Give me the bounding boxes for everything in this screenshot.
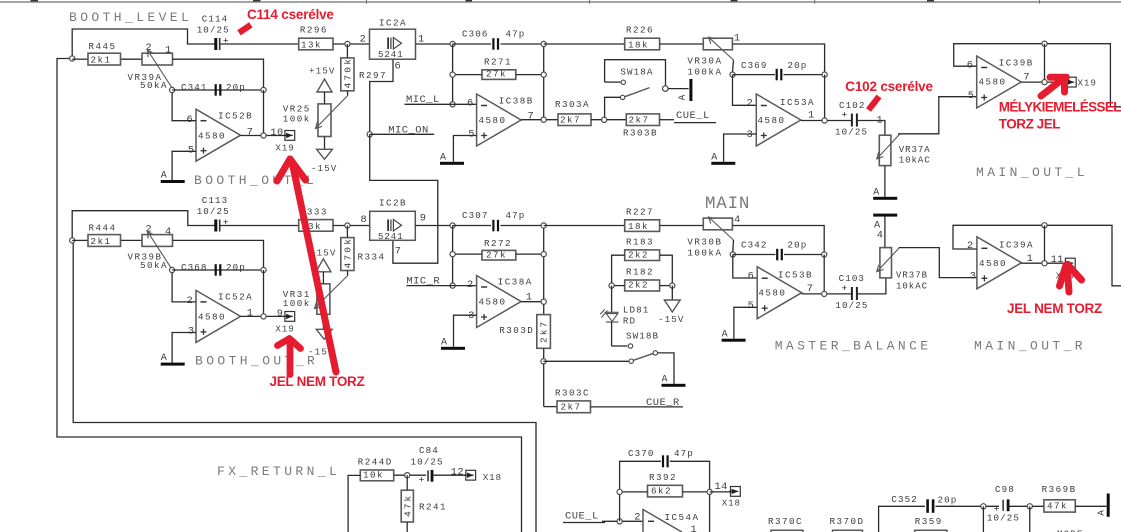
svg-text:C113: C113 xyxy=(202,195,228,206)
potentiometer VR39A xyxy=(142,53,173,65)
svg-text:CUE_L: CUE_L xyxy=(676,110,710,122)
op-amp IC54A partial xyxy=(643,510,682,532)
svg-text:MAIN_OUT_L: MAIN_OUT_L xyxy=(976,165,1088,180)
wire R271 row xyxy=(453,74,482,76)
svg-text:4: 4 xyxy=(165,226,171,238)
svg-text:4580: 4580 xyxy=(758,288,786,299)
node IC2A out junction xyxy=(450,41,455,46)
wire 470k R top xyxy=(346,226,348,238)
red dash C114 xyxy=(239,25,251,33)
node C341 right junction xyxy=(261,87,266,92)
connector X19 main R xyxy=(1065,258,1075,268)
wire C370 loop xyxy=(620,461,661,521)
wire FX return input xyxy=(348,475,360,532)
ground IC53B xyxy=(722,339,746,342)
wire IC52A output xyxy=(241,315,285,317)
svg-text:+: + xyxy=(842,283,848,294)
node MIC_L junction xyxy=(450,102,455,107)
svg-text:-15V: -15V xyxy=(658,314,684,325)
svg-text:6k2: 6k2 xyxy=(651,485,672,496)
svg-text:100k: 100k xyxy=(283,298,311,309)
svg-text:7: 7 xyxy=(528,111,534,123)
wire IC52B pin6 input xyxy=(172,93,196,121)
svg-text:8: 8 xyxy=(361,214,367,226)
ground IC38A xyxy=(441,347,465,350)
node C368 right junction xyxy=(261,267,266,272)
svg-text:R303C: R303C xyxy=(555,387,590,398)
svg-text:R272: R272 xyxy=(484,238,512,249)
wire R303A to R303B xyxy=(591,119,626,121)
red dash C102 xyxy=(869,97,880,111)
svg-text:MIC_ON: MIC_ON xyxy=(388,125,429,137)
wire VR37B wiper to IC39A pin3 xyxy=(899,248,977,278)
svg-text:C369: C369 xyxy=(741,60,767,71)
svg-text:2k7: 2k7 xyxy=(560,115,581,126)
wire IC2A output xyxy=(416,43,453,45)
wiper VR25 xyxy=(316,96,348,129)
svg-text:7: 7 xyxy=(395,246,401,258)
svg-text:20p: 20p xyxy=(938,495,958,506)
node C98 junction xyxy=(1027,504,1032,509)
svg-text:C98: C98 xyxy=(995,484,1015,495)
svg-text:C114: C114 xyxy=(202,13,228,24)
svg-text:R359: R359 xyxy=(915,516,943,527)
svg-text:IC52B: IC52B xyxy=(218,110,253,121)
svg-text:5241: 5241 xyxy=(378,50,404,60)
svg-text:10kAC: 10kAC xyxy=(896,282,928,292)
node R182 left junction xyxy=(609,283,614,288)
svg-text:100k: 100k xyxy=(283,114,311,125)
svg-text:2: 2 xyxy=(360,34,366,46)
wire IC53A pin2 xyxy=(733,75,757,106)
wire IC39A output xyxy=(1021,262,1065,264)
bus stub A mute L xyxy=(689,79,692,101)
red long arrow to X19 booth L xyxy=(277,159,336,372)
wire mid vertical C306-R271-out xyxy=(543,44,545,120)
svg-text:13k: 13k xyxy=(301,40,322,51)
svg-text:10/25: 10/25 xyxy=(197,206,230,217)
potentiometer VR37B 10kAC xyxy=(880,248,892,278)
svg-text:C84: C84 xyxy=(419,445,439,456)
wire left vertical C306-R271-MIC_L xyxy=(452,44,454,104)
svg-text:2k7: 2k7 xyxy=(629,115,650,126)
ground IC38B xyxy=(440,162,464,165)
svg-text:R303A: R303A xyxy=(555,99,590,110)
wire C84 to X18 xyxy=(433,474,465,476)
svg-text:10/25: 10/25 xyxy=(197,24,230,35)
op-amp IC52A xyxy=(196,290,241,342)
svg-text:2: 2 xyxy=(967,240,973,252)
net CUE_L top xyxy=(660,119,675,121)
svg-text:50kA: 50kA xyxy=(140,80,168,91)
wire C103 to VR37B xyxy=(858,278,886,294)
svg-text:10k: 10k xyxy=(363,470,384,481)
svg-text:X19: X19 xyxy=(1078,77,1097,88)
svg-text:R297: R297 xyxy=(359,70,387,81)
svg-text:10/25: 10/25 xyxy=(987,513,1020,524)
svg-text:R370D: R370D xyxy=(830,516,865,527)
svg-text:+15V: +15V xyxy=(309,66,335,77)
wire IC38B output xyxy=(521,119,558,121)
svg-text:R241: R241 xyxy=(419,501,447,512)
svg-text:A: A xyxy=(161,353,167,364)
wire C113 to R333 xyxy=(221,225,299,227)
sheet border top line xyxy=(0,1,1121,3)
svg-text:18k: 18k xyxy=(628,40,649,51)
wire IC53A pin3 ground xyxy=(724,134,757,162)
resistor R334 470k xyxy=(341,238,354,271)
node IC38A out junction xyxy=(541,299,546,304)
svg-text:27k: 27k xyxy=(486,249,507,260)
svg-text:14: 14 xyxy=(715,481,728,493)
svg-text:10/25: 10/25 xyxy=(411,457,444,468)
svg-text:5: 5 xyxy=(468,128,474,140)
wire R244D to C84 xyxy=(394,474,426,476)
svg-text:3: 3 xyxy=(970,271,976,283)
wire SW18A to cue node xyxy=(605,97,621,117)
node VR39B wiper junction xyxy=(170,267,175,272)
svg-text:C342: C342 xyxy=(741,239,767,250)
svg-text:R244D: R244D xyxy=(358,457,393,468)
switch SW18B lever xyxy=(631,353,655,361)
svg-text:A: A xyxy=(1096,510,1106,516)
svg-text:100kA: 100kA xyxy=(687,248,722,259)
wire IC38B pin5 ground xyxy=(453,136,476,162)
svg-text:R334: R334 xyxy=(358,251,386,262)
ground IC53A xyxy=(711,162,735,165)
svg-text:5241: 5241 xyxy=(378,232,404,242)
bus stub A bottom right xyxy=(1107,494,1110,517)
svg-text:4580: 4580 xyxy=(758,115,786,126)
wire R241 wires xyxy=(406,475,408,490)
svg-text:R370C: R370C xyxy=(768,516,803,527)
svg-text:R445: R445 xyxy=(89,41,117,52)
svg-text:R303D: R303D xyxy=(499,325,534,336)
wire C102 to VR37A xyxy=(858,121,885,136)
node VR39A wiper junction xyxy=(170,87,175,92)
ground SW18B xyxy=(662,384,686,387)
svg-text:2k1: 2k1 xyxy=(91,55,112,66)
wire C307 row xyxy=(453,225,491,227)
ground IC52B xyxy=(161,180,185,183)
wire VR37A to ground xyxy=(884,166,886,197)
svg-text:X18: X18 xyxy=(722,498,741,509)
wire R296 to IC2A pin2 xyxy=(333,43,370,45)
svg-text:SW18B: SW18B xyxy=(626,330,659,341)
resistor R303D 2k7 vertical xyxy=(537,315,551,349)
node R445 left junction xyxy=(70,56,75,61)
node R392 right junction xyxy=(707,489,712,494)
svg-text:2k2: 2k2 xyxy=(628,249,649,260)
border zone glyph 5 xyxy=(927,0,934,1)
svg-text:1: 1 xyxy=(247,308,253,320)
svg-text:1: 1 xyxy=(165,45,171,57)
node IC2B out junction xyxy=(450,223,455,228)
svg-text:MAIN_OUT_R: MAIN_OUT_R xyxy=(974,339,1086,354)
svg-text:C352: C352 xyxy=(891,494,917,505)
wire IC52A pin2 input xyxy=(172,273,196,302)
svg-text:A: A xyxy=(440,152,446,163)
wire C114 top link xyxy=(72,29,215,59)
svg-text:10/25: 10/25 xyxy=(835,126,868,137)
wire IC52A pin3 ground xyxy=(172,333,196,363)
wire 470k bottom stub xyxy=(346,91,348,96)
ground VR37A xyxy=(873,197,897,200)
wire mid vertical C307-R272-out xyxy=(543,226,545,315)
border zone glyph 4 xyxy=(731,0,738,1)
wire IC38B out to R226 xyxy=(544,43,625,45)
svg-text:C370: C370 xyxy=(628,448,654,459)
wire R333 to IC2B pin8 xyxy=(333,225,370,227)
wire VR37A wiper to IC39B pin5 xyxy=(899,97,977,135)
svg-text:CUE_L: CUE_L xyxy=(565,511,599,523)
resistor R297 470k xyxy=(341,58,354,91)
wire output to feedback R xyxy=(1044,225,1046,263)
svg-text:IC53A: IC53A xyxy=(780,97,815,108)
wire IC2B output xyxy=(415,225,452,227)
svg-text:9: 9 xyxy=(420,213,426,225)
node IC53A out junction xyxy=(822,118,827,123)
svg-text:R183: R183 xyxy=(626,237,654,248)
svg-text:+: + xyxy=(223,217,229,228)
wire IC52B pin5 ground xyxy=(172,151,196,180)
connector X19 booth R xyxy=(285,312,295,322)
svg-text:X18: X18 xyxy=(483,472,502,483)
svg-text:IC39A: IC39A xyxy=(999,239,1034,250)
node mid R272 junction xyxy=(541,252,546,257)
wire MIC_ON routing to IC2B pin7 xyxy=(370,134,438,263)
connector X18 fx xyxy=(466,470,476,480)
wire R272 row xyxy=(453,253,482,255)
svg-text:IC38B: IC38B xyxy=(499,95,534,106)
red arrow to X19 main L xyxy=(1041,77,1067,96)
wire VR30A pin1 feedback xyxy=(732,44,824,75)
svg-text:12: 12 xyxy=(451,467,464,479)
border zone tick 1 xyxy=(366,0,368,4)
node C342 right junction xyxy=(822,252,827,257)
svg-text:R303B: R303B xyxy=(623,128,658,139)
svg-text:1: 1 xyxy=(734,32,740,44)
node MIC_R junction xyxy=(450,283,455,288)
svg-text:IC38A: IC38A xyxy=(498,277,533,288)
svg-text:4580: 4580 xyxy=(979,77,1007,88)
wire R392 to X18 xyxy=(710,491,731,493)
svg-text:VR30B: VR30B xyxy=(687,237,722,248)
wire feedback C369 to output xyxy=(824,75,826,121)
svg-text:VR37B: VR37B xyxy=(896,271,928,281)
wire IC53B pin6 xyxy=(733,255,757,279)
node IC39B feedback junction xyxy=(1042,41,1047,46)
red arrow to X19 main R xyxy=(1060,265,1082,292)
node IC39B out junction xyxy=(1042,80,1047,85)
svg-text:3: 3 xyxy=(188,326,194,338)
node R303A-R303B junction xyxy=(602,117,607,122)
node IC39A out junction xyxy=(1042,261,1047,266)
svg-text:+: + xyxy=(223,35,229,46)
wire C341 row xyxy=(172,89,263,91)
svg-text:C368: C368 xyxy=(181,262,207,273)
wire booth level L input loop xyxy=(57,59,522,532)
svg-text:R296: R296 xyxy=(300,25,328,36)
svg-text:A: A xyxy=(662,374,668,385)
wire feedback C368 to output xyxy=(263,270,265,316)
svg-text:11: 11 xyxy=(1051,254,1064,266)
wire R226 to VR30A xyxy=(660,43,704,45)
wiper VR30B xyxy=(709,217,734,240)
wire booth level R input loop xyxy=(72,239,73,241)
wire IC53B pin5 ground xyxy=(734,307,757,338)
wire SW18A pole to bus A xyxy=(668,88,689,90)
svg-text:C341: C341 xyxy=(181,82,207,93)
svg-text:A: A xyxy=(711,152,717,163)
wire feedback C341 to output xyxy=(263,90,265,136)
svg-text:2: 2 xyxy=(634,512,640,524)
svg-text:C306: C306 xyxy=(462,28,488,39)
wire R183 loop xyxy=(612,255,625,285)
svg-text:A: A xyxy=(441,337,447,348)
connector X19 main L xyxy=(1066,77,1076,87)
wire C342 row xyxy=(733,254,776,256)
svg-text:R182: R182 xyxy=(626,267,654,278)
svg-text:10kAC: 10kAC xyxy=(899,155,931,165)
svg-text:MODE: MODE xyxy=(1057,528,1083,532)
node IC38B out junction xyxy=(541,117,546,122)
svg-text:2k7: 2k7 xyxy=(539,320,550,343)
svg-text:4580: 4580 xyxy=(479,115,507,126)
connector X19 booth L xyxy=(285,131,295,141)
potentiometer VR39B xyxy=(142,235,173,247)
svg-text:VR30A: VR30A xyxy=(687,55,722,66)
svg-text:A: A xyxy=(722,329,728,340)
svg-text:IC54A: IC54A xyxy=(665,512,700,523)
node R444 left junction xyxy=(70,238,75,243)
power -15V LED branch xyxy=(671,286,673,300)
red arrow to X19 booth R xyxy=(278,339,301,375)
wire 470k R bottom stub xyxy=(346,271,348,276)
svg-text:IC52A: IC52A xyxy=(218,291,253,302)
svg-text:3: 3 xyxy=(747,129,753,141)
svg-text:A: A xyxy=(678,94,688,100)
op-amp IC52B xyxy=(196,109,241,161)
svg-text:R227: R227 xyxy=(626,206,654,217)
wire C113 top link xyxy=(72,211,215,241)
border zone tick 3 xyxy=(814,0,816,4)
wire IC52B output xyxy=(241,135,285,137)
svg-text:+: + xyxy=(419,474,425,485)
svg-text:100kA: 100kA xyxy=(687,66,722,77)
wire to SW18B xyxy=(544,360,629,362)
svg-text:2k2: 2k2 xyxy=(628,280,649,291)
svg-text:SW18A: SW18A xyxy=(620,66,653,77)
node R303D bottom junction xyxy=(541,359,546,364)
wire C368 row xyxy=(172,269,263,271)
svg-text:MASTER_BALANCE: MASTER_BALANCE xyxy=(775,339,932,354)
svg-text:LD81: LD81 xyxy=(623,304,649,315)
wire C98 to R369B xyxy=(1010,505,1044,507)
wire C114 to R296 xyxy=(221,43,299,45)
node C352 junction xyxy=(981,504,986,509)
svg-text:R392: R392 xyxy=(649,472,677,483)
wiper VR31 xyxy=(315,276,348,309)
node C369 right junction xyxy=(822,72,827,77)
ground IC52A xyxy=(161,363,185,366)
svg-text:IC2A: IC2A xyxy=(379,17,407,28)
svg-text:50kA: 50kA xyxy=(140,260,168,271)
svg-text:20p: 20p xyxy=(226,82,246,93)
node R182 right junction xyxy=(670,283,675,288)
border zone tick 2 xyxy=(589,0,591,4)
svg-text:6: 6 xyxy=(467,97,473,109)
potentiometer VR30B 100kA xyxy=(703,218,732,230)
svg-text:4: 4 xyxy=(877,229,883,241)
svg-text:IC53B: IC53B xyxy=(778,270,813,281)
svg-text:18k: 18k xyxy=(628,221,649,232)
svg-text:VR37A: VR37A xyxy=(899,145,931,155)
svg-text:47k: 47k xyxy=(1047,500,1068,511)
svg-text:R444: R444 xyxy=(89,222,117,233)
node IC52A output junction xyxy=(261,314,266,319)
node R241 top junction xyxy=(405,473,410,478)
wire C369 row xyxy=(733,74,776,76)
svg-text:4580: 4580 xyxy=(979,258,1007,269)
wire C306 row xyxy=(453,43,491,45)
svg-text:4580: 4580 xyxy=(198,311,226,322)
svg-text:R369B: R369B xyxy=(1042,484,1077,495)
wire IC38A out to R227 xyxy=(544,225,625,227)
node IC53B out junction xyxy=(822,291,827,296)
op-amp IC53B xyxy=(757,267,802,319)
svg-text:7: 7 xyxy=(247,127,253,139)
svg-text:1: 1 xyxy=(808,109,814,121)
border zone glyph 2 xyxy=(253,0,261,1)
LED LD81 RD xyxy=(611,286,613,312)
svg-text:MAIN: MAIN xyxy=(705,194,750,214)
wiper VR30A xyxy=(709,37,734,60)
svg-text:20p: 20p xyxy=(788,60,808,71)
node mid C307 junction xyxy=(541,223,546,228)
svg-text:6: 6 xyxy=(967,59,973,71)
node VR30A wiper junction xyxy=(730,72,735,77)
wire VR30B pin4 feedback xyxy=(732,226,824,255)
wiper VR39B xyxy=(148,232,173,270)
svg-text:4580: 4580 xyxy=(198,130,226,141)
svg-text:20p: 20p xyxy=(788,239,808,250)
svg-text:CUE_R: CUE_R xyxy=(646,397,680,409)
svg-text:-15V: -15V xyxy=(311,163,337,174)
wire IC38A pin3 ground xyxy=(454,315,477,347)
wire output to feedback xyxy=(1044,44,1046,82)
node R392 left junction xyxy=(617,489,622,494)
svg-text:A: A xyxy=(161,171,167,182)
svg-text:5: 5 xyxy=(748,300,754,312)
svg-text:TORZ JEL: TORZ JEL xyxy=(999,116,1061,131)
node R271 left junction xyxy=(450,72,455,77)
svg-text:4580: 4580 xyxy=(479,296,507,307)
wire R227 to VR30B xyxy=(660,225,704,227)
wire VR39A out to feedback node xyxy=(173,59,264,90)
svg-text:10: 10 xyxy=(270,127,283,139)
svg-text:47k: 47k xyxy=(402,494,413,517)
svg-text:47p: 47p xyxy=(674,448,694,459)
svg-text:C114 cserélve: C114 cserélve xyxy=(247,7,334,22)
resistor R241 47k vertical xyxy=(401,490,413,522)
svg-text:47p: 47p xyxy=(506,210,526,221)
svg-text:2: 2 xyxy=(187,295,193,307)
node mid R271 junction xyxy=(541,72,546,77)
svg-text:6: 6 xyxy=(748,270,754,282)
svg-text:JEL NEM TORZ: JEL NEM TORZ xyxy=(270,374,365,389)
svg-text:27k: 27k xyxy=(486,69,507,80)
